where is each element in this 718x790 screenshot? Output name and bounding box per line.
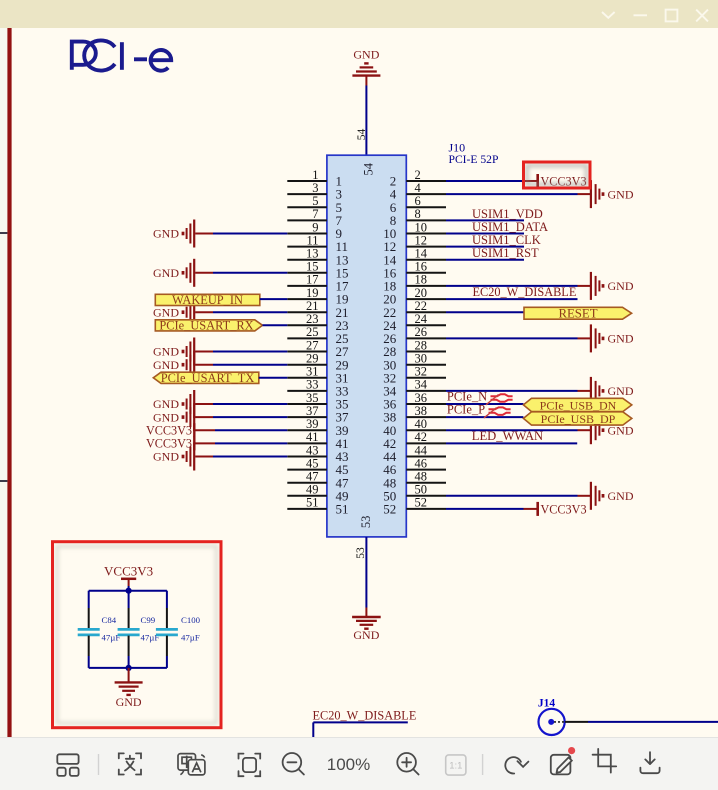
pin 26 stub (383, 325, 446, 346)
toolbar download icon (640, 752, 659, 773)
pin 52 stub (383, 496, 446, 517)
ground symbol at pin 35 (153, 390, 194, 418)
svg-text:16: 16 (415, 260, 428, 274)
svg-text:7: 7 (312, 207, 318, 221)
svg-text:48: 48 (415, 470, 428, 484)
svg-text:GND: GND (608, 384, 634, 398)
svg-text:GND: GND (608, 187, 634, 201)
pin 16 stub (383, 260, 446, 281)
wire pin 2 to VCC3V3 (446, 180, 538, 182)
power symbol VCC3V3 at pin 2 (538, 174, 587, 188)
wire pin 12 net USIM1_CLK (446, 246, 524, 248)
capacitor C100 (156, 591, 178, 668)
svg-text:54: 54 (362, 162, 376, 175)
svg-text:USIM1_RST: USIM1_RST (472, 246, 539, 260)
svg-text:USIM1_VDD: USIM1_VDD (472, 207, 543, 221)
pin 41 stub (287, 430, 348, 451)
sheet border red strip (7, 28, 11, 737)
svg-text:GND: GND (116, 695, 142, 709)
ground symbol at pin 50 (591, 482, 634, 510)
svg-text:GND: GND (608, 489, 634, 503)
wire pin 27 to GND (195, 351, 287, 353)
svg-text:GND: GND (153, 450, 179, 464)
svg-text:VCC3V3: VCC3V3 (146, 424, 192, 438)
svg-text:50: 50 (415, 483, 428, 497)
wire VCC3V3 to junction (128, 579, 130, 591)
wire pin 50 to GND (446, 495, 591, 497)
svg-text:GND: GND (153, 397, 179, 411)
window title bar (0, 0, 718, 28)
svg-text:33: 33 (306, 378, 319, 392)
window minimize icon (634, 14, 648, 16)
net port PCIe_USB_DN (523, 398, 631, 412)
pin 38 stub (383, 404, 446, 425)
wire pin 34 to GND (446, 390, 591, 392)
pin 43 stub (287, 443, 348, 464)
svg-text:VCC3V3: VCC3V3 (146, 437, 192, 451)
pin 25 stub (287, 325, 348, 346)
toolbar background (0, 737, 718, 790)
power symbol VCC3V3 at pin 52 (538, 502, 587, 516)
net port PCIe_USB_DP (523, 412, 631, 426)
ground symbol at pin 26 (591, 324, 634, 352)
power symbol GND capacitor group (115, 682, 143, 708)
wire pin 9 to GND (195, 233, 287, 235)
pin 18 stub (383, 273, 446, 294)
power symbol GND top (352, 47, 380, 75)
svg-text:53: 53 (359, 516, 373, 529)
pin 30 stub (383, 352, 446, 373)
wire pin 20 net EC20_W_DISABLE (446, 298, 578, 300)
svg-text:10: 10 (415, 220, 428, 234)
svg-text:EC20_W_DISABLE: EC20_W_DISABLE (473, 285, 577, 299)
svg-text:RESET: RESET (558, 306, 597, 320)
differential pair marker pin 38 (484, 407, 511, 418)
toolbar zoom-out icon (283, 753, 304, 775)
svg-text:PCIe_USART_RX: PCIe_USART_RX (159, 318, 253, 332)
svg-text:19: 19 (306, 286, 319, 300)
pin 48 stub (383, 470, 446, 491)
wire pin 15 to GND (195, 272, 287, 274)
wire pin 52 to VCC3V3 (446, 508, 538, 510)
window restore-down chevron icon (602, 12, 615, 18)
svg-text:LED_WWAN: LED_WWAN (472, 429, 543, 443)
svg-text:15: 15 (306, 260, 319, 274)
svg-text:45: 45 (306, 456, 319, 470)
pin 44 stub (383, 443, 446, 464)
pin 2 stub (390, 168, 446, 189)
toolbar crop icon (593, 749, 617, 773)
wire pin 8 net USIM1_VDD (446, 219, 524, 221)
svg-text:USIM1_DATA: USIM1_DATA (472, 220, 548, 234)
svg-text:1: 1 (312, 168, 318, 182)
svg-text:22: 22 (415, 299, 428, 313)
pin 12 stub (383, 233, 446, 254)
pin 34 stub (383, 378, 446, 399)
ground symbol at pin 27 (153, 338, 194, 366)
svg-text:PCIe_USB_DP: PCIe_USB_DP (541, 412, 616, 426)
selection highlight box around VCC3V3 (524, 162, 591, 188)
pin 10 stub (383, 220, 446, 241)
wire pin 42 net LED_WWAN (446, 442, 577, 444)
svg-text:PCI-E 52P: PCI-E 52P (449, 153, 499, 166)
svg-text:3: 3 (312, 181, 318, 195)
svg-text:38: 38 (415, 404, 428, 418)
svg-text:GND: GND (153, 266, 179, 280)
wire GND to pin 54 (365, 76, 367, 156)
wire pin 18 to GND (446, 285, 591, 287)
power symbol GND bottom (352, 617, 381, 642)
svg-text:GND: GND (353, 628, 379, 642)
pin 1 stub (287, 168, 342, 189)
power symbol VCC3V3 at pin 41 (146, 436, 194, 450)
svg-text:40: 40 (415, 417, 428, 431)
svg-text:34: 34 (415, 378, 428, 392)
svg-text:6: 6 (415, 194, 421, 208)
svg-text:C100: C100 (181, 615, 201, 625)
svg-text:GND: GND (153, 305, 179, 319)
wire pin 26 to GND (446, 337, 591, 339)
wire pin 41 to VCC3V3 (194, 442, 287, 444)
svg-text:31: 31 (306, 365, 319, 379)
power symbol VCC3V3 at pin 39 (146, 423, 194, 437)
svg-text:GND: GND (353, 47, 379, 61)
window close icon (696, 10, 708, 22)
differential pair marker pin 36 (486, 394, 513, 404)
wire EC20_W_DISABLE bottom (313, 722, 408, 737)
toolbar separator 2 (482, 754, 484, 775)
wire WAKEUP_IN to pin 19 (260, 298, 288, 300)
pin 3 stub (287, 181, 342, 202)
svg-text:USIM1_CLK: USIM1_CLK (472, 233, 541, 247)
svg-text:43: 43 (306, 443, 319, 457)
pin 40 stub (383, 417, 446, 438)
pin 7 stub (287, 207, 342, 228)
wire PCIe_USART_RX to pin 23 (263, 324, 288, 326)
toolbar extract-text icon (119, 753, 141, 774)
svg-text:25: 25 (306, 325, 319, 339)
pin 13 stub (287, 247, 348, 268)
svg-text:C84: C84 (102, 615, 117, 625)
toolbar edit icon with notification dot (551, 755, 572, 775)
toolbar layout icon (57, 754, 78, 776)
pin 4 stub (390, 181, 446, 202)
net port PCIe_USART_RX (155, 318, 262, 332)
svg-text:GND: GND (608, 279, 634, 293)
wire pin 4 to GND (446, 193, 591, 195)
svg-text:30: 30 (415, 352, 428, 366)
svg-text:PCIe_N: PCIe_N (447, 390, 487, 404)
pin 45 stub (287, 456, 348, 477)
ground symbol at pin 15 (153, 259, 194, 287)
pin 51 stub (287, 496, 348, 517)
net port WAKEUP_IN (155, 293, 259, 307)
sheet edge tick 2 (0, 480, 7, 482)
junction bottom (126, 665, 132, 671)
svg-text:36: 36 (415, 391, 428, 405)
pin 9 stub (287, 220, 342, 241)
svg-text:17: 17 (306, 273, 319, 287)
wire pin 10 net USIM1_DATA (446, 233, 524, 235)
svg-text:41: 41 (306, 430, 319, 444)
svg-text:52: 52 (383, 502, 396, 517)
ground symbol at pin 21 (153, 298, 194, 326)
toolbar zoom-in icon (397, 753, 418, 775)
pin 6 stub (390, 194, 446, 215)
wire J14 pin (565, 721, 718, 723)
wire top rail (89, 590, 167, 592)
pin 50 stub (383, 483, 446, 504)
wire PCIe_USART_TX to pin 31 (259, 377, 288, 379)
ground symbol at pin 40 (591, 416, 634, 444)
ground symbol at pin 37 (153, 403, 194, 431)
svg-text:29: 29 (306, 352, 319, 366)
svg-text:28: 28 (415, 338, 428, 352)
pin 33 stub (287, 378, 348, 399)
ground symbol at pin 43 (153, 443, 194, 471)
pin 22 stub (383, 299, 446, 320)
power symbol VCC3V3 capacitor group (104, 564, 153, 579)
ground symbol at pin 29 (153, 351, 194, 379)
capacitor C99 (118, 591, 140, 668)
window maximize icon (666, 10, 678, 22)
pin 15 stub (287, 260, 348, 281)
ground symbol at pin 18 (591, 272, 634, 300)
svg-text:49: 49 (306, 483, 319, 497)
svg-text:VCC3V3: VCC3V3 (541, 502, 587, 516)
svg-text:8: 8 (415, 207, 421, 221)
pin 8 stub (390, 207, 446, 228)
sheet edge tick 1 (0, 232, 7, 234)
toolbar separator 1 (98, 754, 100, 775)
wire pin 36 net PCIe_N (446, 403, 523, 405)
net port RESET (524, 306, 632, 320)
wire pin 14 net USIM1_RST (446, 259, 524, 261)
sheet title text PCI-e (72, 41, 171, 71)
svg-text:1:1: 1:1 (449, 760, 462, 771)
svg-text:WAKEUP_IN: WAKEUP_IN (172, 293, 243, 307)
pin 17 stub (287, 273, 349, 294)
capacitor C84 (78, 591, 100, 668)
pin 31 stub (287, 365, 348, 386)
svg-text:GND: GND (153, 358, 179, 372)
svg-text:47µF: 47µF (102, 633, 121, 643)
svg-text:23: 23 (306, 312, 319, 326)
svg-text:GND: GND (153, 345, 179, 359)
svg-text:PCIe_P: PCIe_P (447, 403, 485, 417)
toolbar rotate icon (505, 757, 528, 773)
svg-text:11: 11 (306, 233, 318, 247)
svg-text:100%: 100% (327, 755, 370, 774)
svg-text:2: 2 (415, 168, 421, 182)
junction top (126, 588, 132, 594)
pin 20 stub (383, 286, 446, 307)
pin 5 stub (287, 194, 342, 215)
connector J10 body (327, 155, 406, 537)
svg-text:VCC3V3: VCC3V3 (104, 564, 153, 579)
svg-text:24: 24 (415, 312, 428, 326)
canvas margin left of sheet (0, 28, 7, 737)
pin 24 stub (383, 312, 446, 333)
svg-text:52: 52 (415, 496, 428, 510)
pin 49 stub (287, 483, 348, 504)
svg-text:18: 18 (415, 273, 428, 287)
wire pin 35 to GND (195, 403, 287, 405)
svg-text:21: 21 (306, 299, 319, 313)
pin 19 stub (287, 286, 348, 307)
svg-text:PCIe_USART_TX: PCIe_USART_TX (161, 371, 255, 385)
pin 28 stub (383, 338, 446, 359)
pin 14 stub (383, 247, 446, 268)
pin 42 stub (383, 430, 446, 451)
wire pin 37 to GND (195, 416, 287, 418)
pin 35 stub (287, 391, 348, 412)
connector J14 coax symbol (539, 709, 565, 735)
svg-text:53: 53 (355, 547, 367, 559)
svg-text:4: 4 (415, 181, 422, 195)
pin 37 stub (287, 404, 349, 425)
svg-text:GND: GND (153, 227, 179, 241)
svg-text:13: 13 (306, 247, 319, 261)
toolbar 1:1 icon disabled (446, 755, 466, 775)
ground symbol at pin 9 (153, 220, 194, 248)
pin 47 stub (287, 470, 349, 491)
svg-text:47: 47 (306, 470, 319, 484)
svg-text:PCIe_USB_DN: PCIe_USB_DN (540, 398, 617, 412)
pin 46 stub (383, 456, 446, 477)
wire bottom rail (89, 667, 167, 669)
svg-text:51: 51 (336, 502, 349, 517)
svg-text:35: 35 (306, 391, 319, 405)
wire pin 53 to GND (365, 537, 367, 617)
svg-text:44: 44 (415, 443, 428, 457)
svg-text:47µF: 47µF (181, 633, 200, 643)
svg-text:9: 9 (312, 220, 318, 234)
pin 11 stub (287, 233, 348, 254)
selection highlight box around capacitor group (53, 542, 222, 728)
pin 29 stub (287, 352, 348, 373)
ground symbol at pin 4 (591, 180, 634, 208)
svg-text:39: 39 (306, 417, 319, 431)
wire pin 22 to RESET port (446, 311, 524, 313)
svg-text:GND: GND (153, 410, 179, 424)
toolbar translate icon (178, 754, 205, 775)
wire pin 29 to GND (195, 364, 287, 366)
svg-text:20: 20 (415, 286, 428, 300)
svg-text:37: 37 (306, 404, 319, 418)
svg-text:51: 51 (306, 496, 319, 510)
svg-text:54: 54 (356, 129, 368, 141)
svg-text:14: 14 (415, 247, 428, 261)
pin 27 stub (287, 338, 349, 359)
svg-text:26: 26 (415, 325, 428, 339)
svg-text:EC20_W_DISABLE: EC20_W_DISABLE (313, 709, 417, 723)
pin 32 stub (383, 365, 446, 386)
wire pin 38 net PCIe_P (446, 416, 523, 418)
wire pin 43 to GND (195, 456, 287, 458)
svg-text:C99: C99 (141, 615, 156, 625)
wire pin 39 to VCC3V3 (194, 429, 287, 431)
pin 21 stub (287, 299, 348, 320)
wire capacitor bottom to GND (128, 668, 130, 682)
ground symbol at pin 34 (591, 377, 634, 405)
pin 36 stub (383, 391, 446, 412)
wire pin 40 to GND (446, 429, 591, 431)
toolbar fit-screen icon (239, 754, 261, 777)
svg-text:46: 46 (415, 456, 428, 470)
net port PCIe_USART_TX (153, 371, 258, 385)
svg-text:GND: GND (608, 332, 634, 346)
svg-text:5: 5 (312, 194, 318, 208)
svg-text:32: 32 (415, 365, 428, 379)
svg-text:12: 12 (415, 233, 428, 247)
svg-text:42: 42 (415, 430, 428, 444)
pin 23 stub (287, 312, 348, 333)
svg-text:27: 27 (306, 338, 319, 352)
pin 39 stub (287, 417, 348, 438)
wire pin 21 to GND (195, 311, 287, 313)
